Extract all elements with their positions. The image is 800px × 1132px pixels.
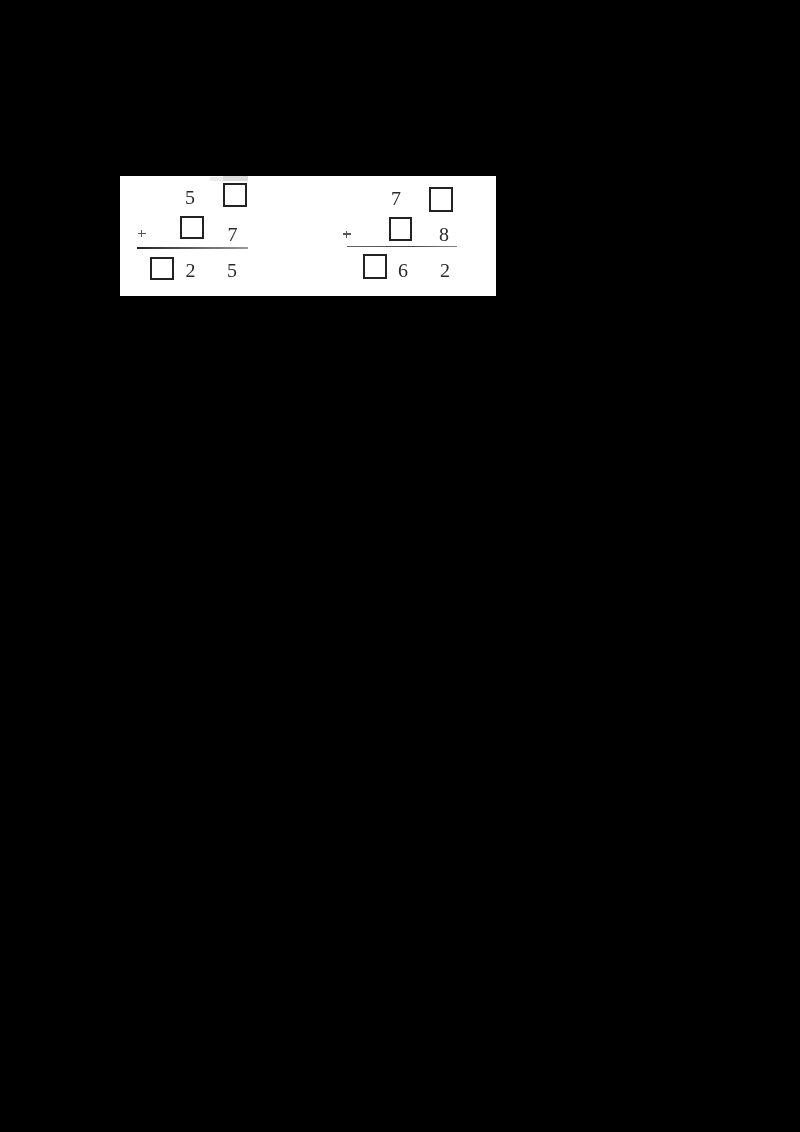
answer box row1 ones: [223, 183, 247, 207]
digit 5 (row3 ones): [227, 261, 237, 281]
digit 6 (row3 tens): [398, 261, 408, 281]
white worksheet panel: [120, 176, 496, 296]
plus sign: [0, 0, 800, 1]
digit 2 (row3 tens): [186, 261, 196, 281]
digit 8 (row2 ones): [439, 225, 449, 245]
gray scan smudge above first box: [223, 176, 248, 181]
answer box row1 ones: [429, 187, 453, 212]
answer box row3 hundreds: [363, 254, 387, 279]
sum line: [137, 247, 248, 249]
sum line: [347, 246, 457, 248]
digit 2 (row3 ones): [440, 261, 450, 281]
answer box row2 tens: [389, 217, 412, 241]
digit 7 (row2 ones): [228, 225, 238, 245]
answer box row3 hundreds: [150, 257, 174, 281]
digit 7 (row1 tens): [391, 189, 401, 209]
plus sign: [0, 0, 800, 1]
answer box row2 tens: [180, 216, 205, 239]
digit 5 (row1 tens): [185, 188, 195, 208]
